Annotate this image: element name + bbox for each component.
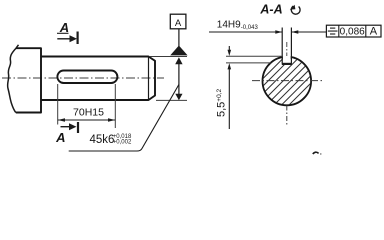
svg-text:14H9: 14H9 [217, 19, 241, 30]
svg-text:0,086: 0,086 [340, 26, 365, 37]
svg-text:A: A [370, 26, 378, 38]
svg-text:A: A [175, 18, 182, 29]
svg-text:-0,043: -0,043 [241, 25, 259, 31]
svg-text:+0,002: +0,002 [113, 140, 132, 146]
svg-text:70H15: 70H15 [73, 107, 104, 119]
svg-text:A-A: A-A [259, 3, 282, 17]
svg-text:A: A [55, 130, 65, 145]
svg-text:45k6: 45k6 [90, 134, 115, 146]
